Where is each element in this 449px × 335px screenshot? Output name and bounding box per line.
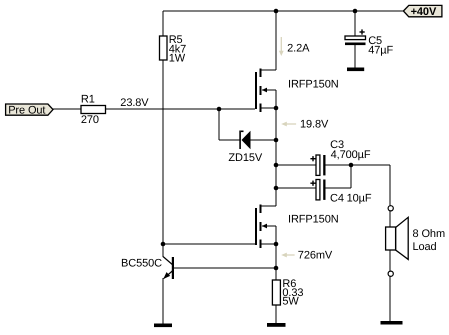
wire zener anode to output column	[251, 139, 277, 141]
wire lower MOSFET gate to BC550C collector node	[163, 243, 255, 245]
svg-text:Pre Out: Pre Out	[8, 104, 45, 116]
input port tag Pre Out	[6, 104, 53, 116]
resistor R1	[81, 94, 106, 127]
svg-text:IRFP150N: IRFP150N	[288, 78, 339, 90]
svg-text:2.2A: 2.2A	[287, 42, 310, 54]
transistor Q3 BC550C	[121, 257, 174, 280]
junction dot upper source	[274, 106, 279, 111]
ground below R6	[267, 323, 286, 327]
wire speaker box to lower terminal	[389, 250, 391, 271]
resistor R6	[272, 278, 303, 308]
junction dot rail at C5	[353, 9, 358, 14]
junction dot zener at output	[274, 138, 279, 143]
wire BC550C base to output node	[174, 267, 276, 269]
speaker 8 Ohm Load	[386, 217, 445, 259]
transistor Q1 upper MOSFET IRFP150N	[255, 69, 339, 113]
capacitor C5 47uF	[345, 29, 393, 56]
junction dot collector gate node	[161, 242, 166, 247]
ground below speaker	[381, 321, 403, 325]
junction dot lower source	[274, 242, 279, 247]
wire R6 to ground	[275, 305, 277, 324]
wire speaker lower terminal to ground	[389, 276, 391, 322]
svg-text:R1: R1	[81, 94, 95, 106]
wire speaker column down to terminal	[389, 165, 391, 206]
annotation arrow 726mV	[281, 250, 333, 262]
wire top supply rail	[163, 10, 403, 12]
svg-text:5W: 5W	[282, 296, 299, 308]
svg-text:ZD15V: ZD15V	[228, 152, 262, 164]
resistor R5	[160, 34, 187, 64]
wire lower MOSFET source to base node	[275, 226, 277, 280]
wire C4 junction up to C3 output	[350, 165, 352, 188]
power tag +40V	[403, 5, 442, 18]
ground below C5	[347, 68, 364, 72]
wire output column upper MOSFET source down to lower drain	[275, 90, 277, 206]
capacitor C4 10uF	[310, 180, 371, 205]
wire C4 output to junction	[326, 187, 352, 189]
svg-text:C4: C4	[330, 192, 344, 204]
wire top MOSFET drain to rail	[275, 11, 277, 70]
wire left column from rail to R5	[162, 11, 164, 36]
wire to zener cathode	[219, 139, 240, 141]
wire C3 to speaker column	[326, 164, 391, 166]
svg-text:10µF: 10µF	[347, 192, 372, 204]
svg-text:726mV: 726mV	[298, 250, 333, 262]
wire BC550C emitter to ground	[162, 278, 164, 325]
junction dot C4 at output	[274, 186, 279, 191]
junction dot C3-C4 join	[349, 163, 354, 168]
wire Pre Out tag to R1	[53, 108, 81, 110]
svg-text:270: 270	[81, 114, 99, 126]
wire left column R5 to collector junction	[162, 60, 164, 257]
junction dot rail at output column	[274, 9, 279, 14]
svg-text:47µF: 47µF	[368, 45, 393, 57]
wire speaker terminal to box	[389, 211, 391, 227]
svg-text:Load: Load	[413, 241, 437, 253]
annotation arrow 2.2A	[279, 37, 310, 56]
wire output node to C3	[276, 164, 316, 166]
ground below BC550C emitter	[154, 324, 172, 328]
wire C5 branch from rail	[354, 11, 356, 36]
wire C5 to ground	[354, 45, 356, 69]
svg-text:23.8V: 23.8V	[120, 97, 149, 109]
capacitor C3 4700uF	[310, 139, 370, 175]
wire gate node down to zener	[218, 109, 220, 140]
speaker lower terminal node	[388, 271, 393, 276]
annotation arrow 19.8V	[281, 119, 329, 131]
svg-text:4,700µF: 4,700µF	[331, 149, 371, 161]
wire R1 to top MOSFET gate	[106, 108, 255, 110]
zener diode ZD15V	[228, 131, 262, 165]
svg-text:1W: 1W	[169, 52, 186, 64]
svg-text:BC550C: BC550C	[121, 258, 162, 270]
svg-text:8 Ohm: 8 Ohm	[413, 228, 446, 240]
svg-text:IRFP150N: IRFP150N	[288, 213, 339, 225]
svg-text:+40V: +40V	[411, 6, 437, 18]
svg-text:19.8V: 19.8V	[300, 119, 329, 131]
speaker upper terminal node	[388, 206, 393, 211]
junction dot C3 at output	[274, 163, 279, 168]
junction dot gate node	[217, 107, 222, 112]
wire output node to C4	[276, 187, 316, 189]
junction dot base R6 node	[274, 266, 279, 271]
transistor Q2 lower MOSFET IRFP150N	[255, 205, 339, 249]
